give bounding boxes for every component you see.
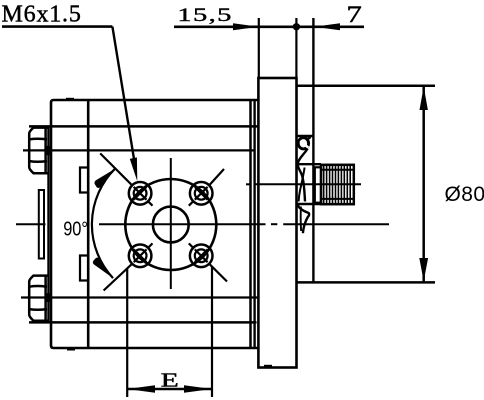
svg-text:E: E bbox=[161, 368, 179, 391]
svg-text:7: 7 bbox=[346, 2, 362, 27]
arrow up bbox=[420, 87, 428, 110]
body joint line front plate bbox=[87, 100, 90, 348]
E extension right bbox=[211, 267, 213, 398]
arc arrowhead lower bbox=[93, 258, 113, 279]
upper port centerline bbox=[23, 149, 255, 151]
E arrow right bbox=[184, 385, 212, 393]
body horizontal edge lower bbox=[29, 321, 257, 324]
rear housing bottom edge with extension bbox=[297, 281, 436, 284]
E arrow left bbox=[127, 385, 155, 393]
left port boss plate bbox=[39, 190, 44, 259]
bolt hole lower left bbox=[104, 243, 153, 290]
bolt hole upper left bbox=[100, 153, 152, 205]
bolt hole upper right bbox=[189, 169, 224, 206]
left edge inner line bbox=[47, 126, 49, 322]
hex fitting upper bbox=[29, 128, 48, 174]
arrow right to flange left bbox=[233, 23, 259, 30]
port slot lower bbox=[80, 256, 87, 281]
shaft cap bottom inner line bbox=[300, 207, 302, 232]
arrow left to housing right bbox=[314, 23, 340, 30]
splined coupling body bbox=[321, 165, 354, 204]
nub artifact bottom bbox=[67, 348, 75, 350]
port slot upper bbox=[80, 168, 87, 193]
arc arrowhead upper bbox=[94, 169, 115, 188]
spline teeth bbox=[324, 165, 351, 204]
dimension E bbox=[127, 388, 212, 391]
nub artifact flange bottom bbox=[264, 365, 272, 367]
leader diagonal bbox=[112, 27, 135, 170]
shaft bore top line bbox=[297, 135, 314, 137]
flange front outline circle bbox=[125, 179, 216, 270]
lower port centerline bbox=[21, 296, 258, 298]
dimension diameter 80 bbox=[422, 87, 425, 282]
hex fitting lower bbox=[29, 276, 48, 321]
leader arrowhead bbox=[130, 157, 138, 181]
pilot center circle bbox=[153, 207, 189, 243]
main horizontal centerline bbox=[16, 223, 389, 225]
svg-text:15,5: 15,5 bbox=[177, 4, 232, 25]
pump body outline bbox=[51, 100, 259, 348]
coupling collar bbox=[315, 167, 321, 202]
svg-text:Ø80: Ø80 bbox=[445, 183, 484, 206]
svg-text:90°: 90° bbox=[63, 217, 88, 240]
shaft bottom line bbox=[297, 203, 322, 205]
shaft cap inner contour bbox=[299, 168, 305, 202]
dimension line 15,5 and 7 bbox=[174, 25, 364, 28]
svg-text:M6x1.5: M6x1.5 bbox=[2, 2, 82, 28]
shaft cap bottom hook bbox=[298, 204, 310, 233]
leader underline bbox=[2, 25, 112, 28]
shaft top line bbox=[297, 163, 322, 165]
extension line flange left bbox=[258, 18, 260, 78]
hex upper shading bbox=[46, 146, 51, 155]
hex lower shading bbox=[46, 293, 51, 302]
body joint line rear right bbox=[249, 100, 252, 348]
shaft cap break curl top bbox=[298, 138, 308, 149]
mounting flange side view bbox=[258, 78, 296, 368]
arrow down bbox=[419, 258, 428, 281]
body joint line rear plate bbox=[253, 101, 255, 348]
rear housing top edge with extension bbox=[297, 85, 436, 88]
shaft centerline bbox=[246, 183, 361, 185]
bolt hole lower right bbox=[189, 243, 227, 281]
rear housing right edge bbox=[312, 18, 314, 282]
nub artifact top bbox=[66, 98, 74, 100]
angle arc 90 deg bbox=[92, 169, 115, 278]
body horizontal edge upper bbox=[29, 125, 259, 128]
extension line flange right bbox=[295, 18, 297, 78]
dim dot flange right bbox=[293, 23, 300, 30]
E extension left bbox=[126, 269, 128, 397]
spline root lines bbox=[321, 170, 354, 199]
front view vertical centerline bbox=[170, 158, 172, 289]
shaft cap left contour bbox=[298, 149, 308, 202]
